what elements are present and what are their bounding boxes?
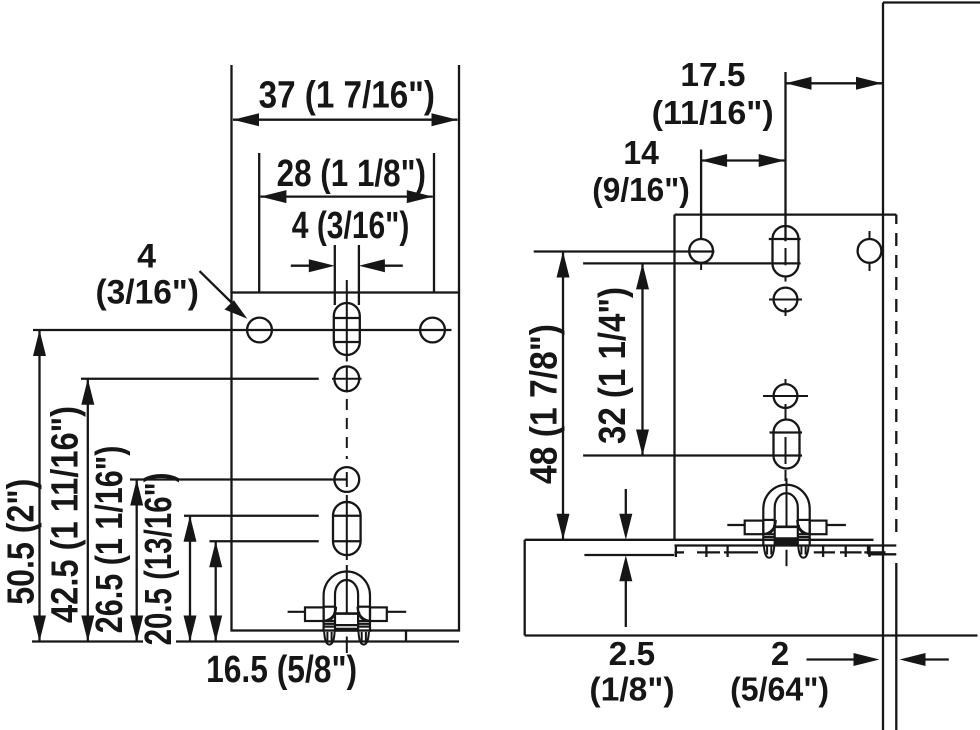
- middle hole (right view): [774, 384, 798, 408]
- svg-text:48 (1 7/8"): 48 (1 7/8"): [524, 324, 566, 484]
- dimension 26.5: [136, 480, 138, 642]
- extension line 32 top: [583, 262, 801, 264]
- hole below slot: [774, 288, 798, 312]
- svg-text:37 (1 7/16"): 37 (1 7/16"): [259, 75, 435, 117]
- bottom flange front edge baseline: [32, 640, 143, 642]
- hole row 1 centerline: [33, 329, 452, 331]
- svg-text:28 (1 1/8"): 28 (1 1/8"): [277, 153, 426, 195]
- dimension 37 line: [233, 119, 458, 121]
- svg-text:(9/16"): (9/16"): [592, 171, 690, 208]
- shelf panel bottom edge: [525, 634, 978, 636]
- plate right edge (solid top): [895, 215, 897, 224]
- slot row 4: [333, 502, 361, 555]
- wall panel left edge: [882, 3, 884, 730]
- svg-text:14: 14: [623, 134, 659, 171]
- dimension 17.5: [786, 82, 883, 84]
- dimension 2.5 arrows: [625, 489, 627, 515]
- extension line 26.5: [130, 478, 347, 480]
- dashed centerline: [346, 399, 348, 459]
- wall panel top edge: [883, 1, 980, 3]
- dimension 28 line: [260, 195, 432, 197]
- flange end notch: [867, 546, 869, 555]
- svg-text:42.5 (1 11/16"): 42.5 (1 11/16"): [45, 406, 87, 623]
- dimension 50.5: [38, 330, 40, 642]
- svg-text:(3/16"): (3/16"): [96, 274, 199, 312]
- slot row 1: [334, 303, 360, 355]
- shelf panel top edge: [525, 539, 874, 541]
- dimension 48: [562, 252, 564, 540]
- svg-text:26.5 (1 1/16"): 26.5 (1 1/16"): [89, 446, 131, 634]
- plate left edge: [673, 215, 675, 540]
- svg-text:17.5: 17.5: [680, 56, 745, 93]
- clip fastener side view: [727, 478, 846, 566]
- hole top-left (right view): [689, 239, 713, 263]
- svg-text:(1/8"): (1/8"): [589, 670, 674, 707]
- svg-text:(5/64"): (5/64"): [730, 670, 829, 707]
- dimension 20.5: [189, 516, 191, 642]
- svg-text:4: 4: [137, 237, 156, 275]
- svg-text:2.5: 2.5: [609, 635, 656, 672]
- flange line: [675, 544, 897, 546]
- svg-text:2: 2: [771, 635, 789, 672]
- clip fastener front view: [288, 565, 407, 653]
- dimension 2 arrows: [807, 658, 855, 660]
- plate top edge: [675, 213, 897, 215]
- extension lines for 28: [258, 153, 260, 293]
- hole row 3: [334, 467, 359, 492]
- shelf panel left edge: [524, 540, 526, 636]
- plate right edge extension up: [458, 65, 460, 293]
- plate right edge (solid bottom): [895, 563, 897, 730]
- hole top-right (right view): [858, 239, 882, 263]
- extension line 20.5: [184, 515, 319, 517]
- dimension 42.5: [87, 379, 89, 642]
- leader arrow to hole: [200, 271, 233, 303]
- svg-text:20.5 (13/16"): 20.5 (13/16"): [138, 473, 180, 646]
- dimension 32: [641, 263, 643, 455]
- svg-text:32 (1 1/4"): 32 (1 1/4"): [592, 287, 634, 444]
- svg-text:16.5 (5/8"): 16.5 (5/8"): [206, 649, 357, 691]
- extension line 16.5: [210, 540, 319, 542]
- svg-text:50.5 (2"): 50.5 (2"): [1, 479, 43, 605]
- flange step tick: [405, 631, 407, 642]
- lower slot (right view): [774, 420, 800, 469]
- svg-text:(11/16"): (11/16"): [652, 94, 774, 131]
- flange slot ticks: [675, 546, 677, 558]
- extension lines for 4: [334, 245, 336, 305]
- dimension 16.5: [215, 541, 217, 641]
- top slot (right view): [773, 226, 799, 276]
- svg-text:4 (3/16"): 4 (3/16"): [292, 205, 410, 247]
- extension line 42.5: [81, 378, 319, 380]
- hole right (row 1): [420, 318, 445, 343]
- plate right edge (hidden dashed): [895, 233, 897, 540]
- flange slot edges: [675, 551, 685, 553]
- hole row 2: [334, 366, 359, 391]
- plate outline: [232, 293, 460, 631]
- plate left edge extension up: [230, 65, 232, 293]
- dimension 4 arrows: [291, 265, 310, 267]
- hole left (row 1): [247, 318, 272, 343]
- extension line 48 top: [534, 250, 715, 252]
- dimension 14: [701, 159, 785, 161]
- extension line 2.5: [584, 554, 674, 556]
